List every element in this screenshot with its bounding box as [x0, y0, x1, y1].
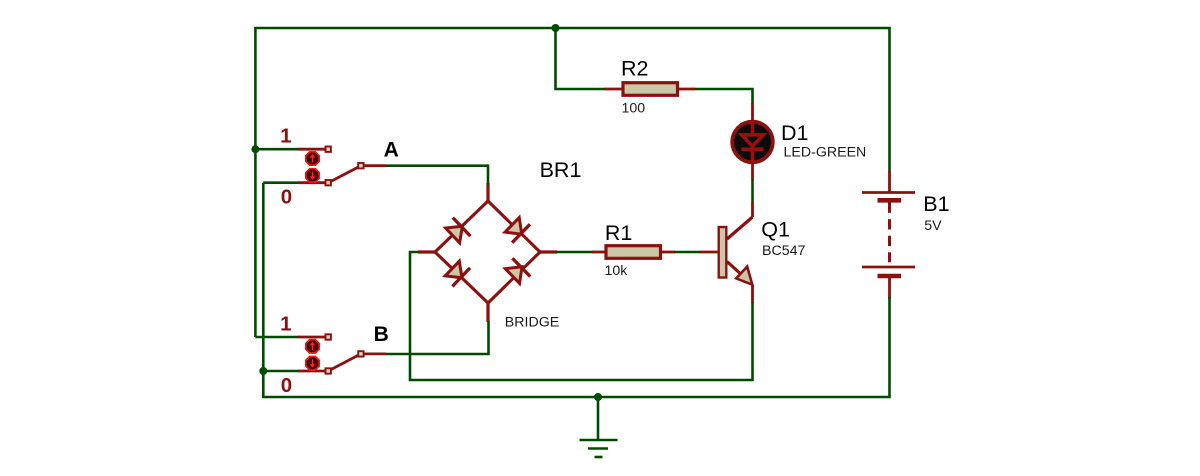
- wire: ground stem: [597, 397, 600, 440]
- wire: R2 feed from top rail: [556, 28, 607, 89]
- wire: switch B contact 0 pin (red): [298, 370, 325, 373]
- wire: switch B contact 1 pin (red): [298, 336, 325, 339]
- wire: bridge top pin (red): [486, 183, 489, 202]
- wire: R1 left pin (red): [592, 251, 606, 254]
- wire: switch B pole pin (red): [361, 352, 386, 355]
- wire: bridge right to R1: [556, 251, 593, 254]
- node: left rail junction at switch B 0: [259, 367, 267, 375]
- wire: switch A contact 1 (green): [255, 148, 299, 151]
- wire: switch A pole pin (red): [361, 164, 386, 167]
- svg-text:BR1: BR1: [540, 158, 582, 182]
- switch B pole terminal: [358, 351, 363, 356]
- wire: bridge left pin (red): [418, 250, 436, 253]
- wire: switch A contact 1 pin (red): [298, 148, 325, 151]
- node: ground junction: [594, 393, 602, 401]
- node: top rail junction: [552, 24, 560, 32]
- switch A: [255, 147, 386, 186]
- svg-text:1: 1: [280, 312, 291, 335]
- LED D1 body circle: [732, 122, 773, 163]
- wire: top power rail with left and right verticals: [255, 28, 889, 337]
- wire: bridge diamond sides: [435, 201, 540, 303]
- transistor Q1: [719, 217, 753, 285]
- switch B: [255, 334, 386, 373]
- LED D1: [732, 121, 773, 163]
- switch B terminal 0: [326, 368, 331, 373]
- wire: LED to Q1 collector: [751, 179, 754, 203]
- svg-text:A: A: [384, 139, 399, 162]
- switch A actuator buttons: [306, 152, 319, 182]
- B1 cell 1 positive plate: [862, 191, 915, 194]
- wire: switch A contact 0 pin (red): [298, 181, 325, 184]
- svg-text:0: 0: [281, 186, 292, 209]
- switch A terminal 1: [326, 147, 331, 152]
- wire: Q1 emitter pin (red): [751, 285, 754, 303]
- wire: R2 left pin (red): [605, 88, 624, 91]
- ground: [580, 397, 618, 457]
- Q1 base bar: [719, 227, 727, 278]
- LED D1 diode symbol: [742, 121, 764, 163]
- wire: Q1 collector diagonal: [727, 217, 753, 239]
- wire: R2 to LED D1: [694, 89, 753, 104]
- wire: switch A pole to bridge top: [386, 166, 488, 185]
- wire: emitter down to bottom loop and bridge left vertex: [410, 252, 753, 380]
- resistor R2: [623, 83, 678, 96]
- wire: Q1 base pin (red): [700, 251, 718, 254]
- ground bar long: [580, 439, 618, 442]
- switch A blade (thrown to 0): [328, 166, 361, 183]
- node: left rail junction at switch A: [251, 145, 259, 153]
- wire: bridge bottom pin (red): [486, 303, 489, 322]
- svg-text:1: 1: [280, 125, 291, 148]
- bridge rectifier BR1: [435, 201, 540, 303]
- switch B terminal 1: [326, 334, 331, 339]
- switch B blade (thrown to 0): [328, 354, 361, 371]
- svg-text:B1: B1: [923, 192, 949, 216]
- Q1 emitter arrow: [736, 267, 752, 285]
- wire: LED bottom pin (red): [751, 163, 754, 180]
- wire: battery top pin (red): [888, 171, 891, 192]
- wire: switch B contact 0 (green): [263, 370, 299, 373]
- svg-text:LED-GREEN: LED-GREEN: [784, 145, 867, 161]
- wire: R2 right pin (red): [677, 88, 696, 91]
- wire: Q1 emitter diagonal: [727, 262, 749, 282]
- wire: battery bottom pin (red): [888, 276, 891, 299]
- svg-text:B: B: [374, 323, 389, 346]
- switch B actuator buttons: [306, 340, 319, 370]
- wire: switch B contact 1 (green): [255, 336, 299, 339]
- wire: bridge right pin (red): [539, 250, 557, 253]
- svg-text:5V: 5V: [924, 218, 942, 234]
- diode D-BL of BR1: [443, 259, 470, 287]
- wire: switch A contact 0 (green): [263, 181, 299, 184]
- switch A pole terminal: [358, 163, 363, 168]
- diode D-TL of BR1: [444, 217, 471, 245]
- switch A terminal 0: [326, 180, 331, 185]
- B1 dashed link: [888, 203, 891, 263]
- ground bar short: [595, 456, 603, 459]
- wire: Q1 collector pin (red): [751, 202, 754, 217]
- resistor R1: [606, 246, 661, 259]
- wire: bottom ground rail with side verticals: [263, 183, 889, 397]
- B1 cell 2 positive plate: [862, 266, 915, 269]
- diode D-TR of BR1: [503, 216, 530, 244]
- svg-text:R1: R1: [605, 221, 632, 245]
- battery B1: [862, 193, 915, 277]
- svg-text:10k: 10k: [605, 263, 629, 279]
- svg-text:BRIDGE: BRIDGE: [505, 315, 559, 331]
- wire: LED top pin (red): [751, 103, 754, 121]
- svg-text:BC547: BC547: [762, 243, 805, 259]
- svg-text:Q1: Q1: [761, 218, 790, 242]
- wire: R1 right pin (red): [660, 251, 675, 254]
- svg-text:0: 0: [281, 374, 292, 397]
- svg-text:100: 100: [622, 100, 646, 116]
- wire: switch B pole to bridge bottom: [386, 321, 489, 354]
- ground bar middle: [588, 447, 608, 450]
- B1 cell 1 negative plate: [878, 198, 902, 203]
- svg-text:D1: D1: [781, 121, 808, 145]
- diode D-BR of BR1: [503, 258, 530, 286]
- B1 cell 2 negative plate: [878, 274, 902, 279]
- svg-text:R2: R2: [621, 57, 648, 81]
- wire: R1 to Q1 base: [674, 251, 701, 254]
